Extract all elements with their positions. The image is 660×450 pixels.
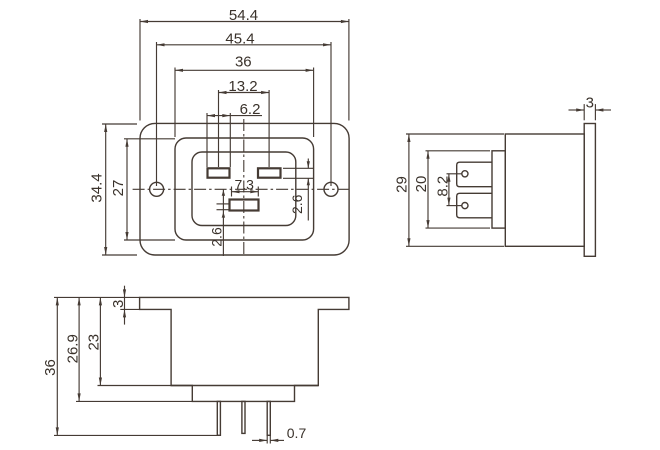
svg-text:0.7: 0.7 bbox=[287, 425, 307, 441]
svg-text:2.6: 2.6 bbox=[289, 194, 305, 214]
svg-text:54.4: 54.4 bbox=[229, 7, 258, 24]
svg-text:2.6: 2.6 bbox=[209, 227, 225, 247]
svg-text:34.4: 34.4 bbox=[88, 173, 105, 202]
svg-text:27: 27 bbox=[110, 180, 127, 197]
svg-text:3: 3 bbox=[586, 95, 594, 112]
svg-text:8.2: 8.2 bbox=[434, 176, 451, 197]
svg-text:26.9: 26.9 bbox=[65, 334, 82, 363]
svg-text:45.4: 45.4 bbox=[225, 30, 254, 47]
svg-text:3: 3 bbox=[110, 300, 127, 308]
svg-text:20: 20 bbox=[413, 176, 430, 193]
svg-text:23: 23 bbox=[86, 334, 103, 351]
svg-text:36: 36 bbox=[42, 359, 59, 376]
svg-text:29: 29 bbox=[394, 176, 411, 193]
svg-text:36: 36 bbox=[235, 53, 252, 70]
svg-text:6.2: 6.2 bbox=[240, 101, 261, 118]
svg-text:7.3: 7.3 bbox=[234, 176, 254, 192]
svg-text:13.2: 13.2 bbox=[228, 78, 257, 95]
